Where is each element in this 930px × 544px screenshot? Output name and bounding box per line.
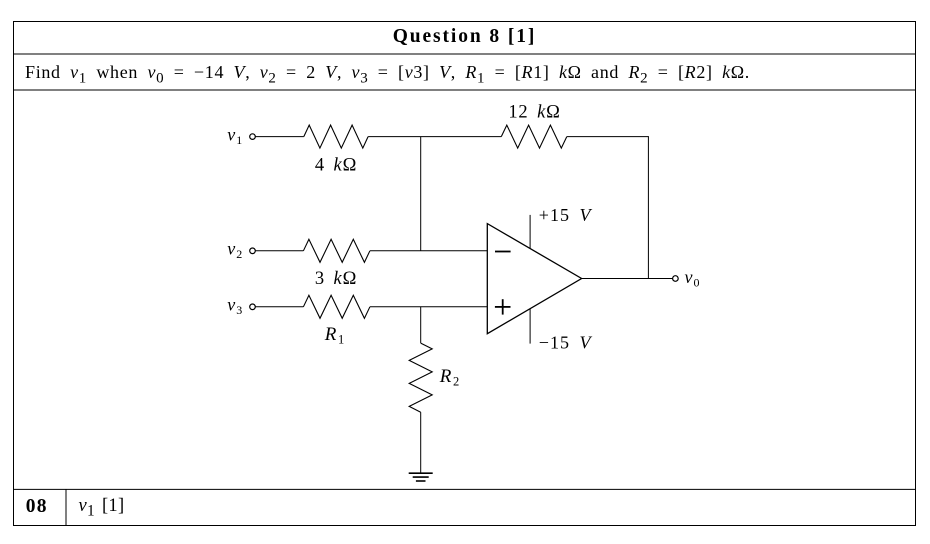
wire v3 node down to R2 (420, 307, 422, 343)
wire R1 to op-amp non-inverting input (370, 306, 487, 308)
terminal v3 (250, 304, 256, 310)
svg-text:+15 V: +15 V (539, 205, 593, 225)
svg-text:v3: v3 (227, 295, 243, 317)
svg-text:v0: v0 (685, 267, 701, 289)
ground (409, 473, 433, 481)
svg-text:R1: R1 (324, 324, 346, 347)
answer row: v1 [1] (79, 488, 379, 524)
svg-text:12 kΩ: 12 kΩ (508, 102, 560, 122)
wire R2 to ground (420, 412, 422, 473)
wire v2 to R(3k) (255, 250, 303, 252)
wire v1 to R(4k) (255, 136, 303, 138)
svg-text:v2: v2 (227, 239, 243, 261)
resistor 4 kOhm (304, 125, 368, 148)
wire op-amp output (582, 278, 673, 280)
svg-text:3 kΩ: 3 kΩ (315, 269, 357, 289)
terminal v1 (250, 134, 256, 140)
op-amp U1 (487, 224, 581, 334)
resistor R1 (303, 295, 370, 318)
op-amp plus sign (495, 299, 511, 314)
resistor 12 kOhm (501, 125, 567, 148)
title row text (14, 21, 916, 53)
negative supply pin (529, 309, 531, 344)
wire R(12k) to feedback corner (567, 136, 649, 138)
terminal v2 (250, 248, 256, 254)
svg-text:4 kΩ: 4 kΩ (315, 156, 357, 176)
wire R(3k) to op-amp inverting input (370, 250, 487, 252)
wire feedback down to output (647, 136, 649, 278)
positive supply pin (529, 215, 531, 249)
op-amp minus sign (495, 251, 511, 253)
resistor 3 kOhm (303, 239, 370, 262)
wire junction to inverting node (420, 137, 422, 251)
wire v3 to R1 (255, 306, 303, 308)
svg-text:v1: v1 (227, 125, 243, 147)
wire R(4k) to R(12k) (368, 136, 501, 138)
svg-text:R2: R2 (439, 366, 461, 389)
problem statement row text (25, 55, 915, 90)
resistor R2 (409, 343, 432, 412)
terminal v0 (673, 276, 679, 282)
answer row: question number 08 (26, 489, 48, 525)
svg-text:−15 V: −15 V (539, 332, 593, 352)
